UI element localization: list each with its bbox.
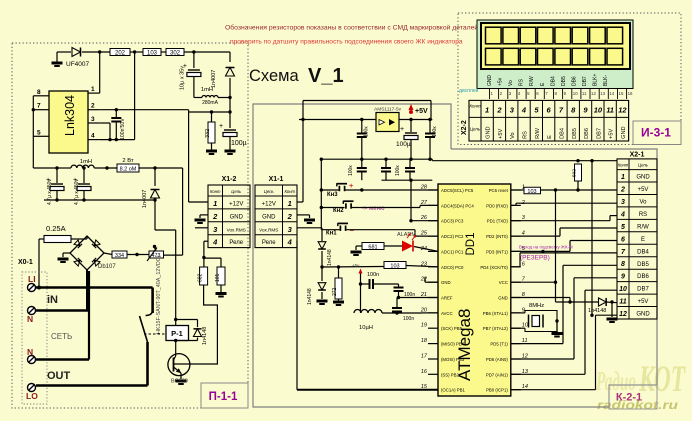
cap 100n gnd 410 [409, 159, 411, 167]
svg-text:4: 4 [91, 133, 95, 140]
bridge bottom to N bus [86, 270, 88, 310]
connector X2-1 table [617, 159, 657, 319]
svg-text:(SS) PB2: (SS) PB2 [441, 372, 460, 377]
connector X0-1 dotted box [22, 272, 47, 404]
pin3 to RS [511, 220, 610, 222]
X1-2 left stubs [189, 201, 208, 203]
pin7 VCC wire [511, 281, 556, 283]
module I-3-1 dashed frame [458, 13, 681, 145]
svg-text:Цепь: Цепь [231, 189, 241, 194]
svg-text:13: 13 [600, 91, 605, 96]
svg-text:DB7: DB7 [596, 128, 602, 139]
svg-text:PD2 (INT0): PD2 (INT0) [486, 234, 508, 239]
svg-text:8MHz: 8MHz [529, 303, 544, 309]
svg-text:1n4148: 1n4148 [202, 327, 208, 345]
wire top rail [57, 51, 71, 53]
svg-text:PD1 (TXD): PD1 (TXD) [487, 219, 509, 224]
svg-text:10µ x 35v: 10µ x 35v [180, 66, 186, 90]
+12V feed down [188, 112, 190, 202]
svg-text:HK15F-SANT-90T_40A_12VDC): HK15F-SANT-90T_40A_12VDC) [156, 255, 162, 334]
divider tap vertical [182, 168, 184, 255]
resistor 682 vert [203, 258, 205, 268]
svg-text:10: 10 [619, 286, 627, 293]
svg-text:10: 10 [573, 91, 578, 96]
svg-text:N: N [27, 347, 33, 357]
input rail [299, 119, 376, 121]
diode 1n4148 5V [599, 298, 607, 306]
resistor 332 [211, 112, 213, 122]
resistor 103 adc [384, 262, 406, 269]
cap 100n gnd 386 [385, 159, 387, 167]
svg-text:272: 272 [332, 287, 338, 296]
svg-text:+12V: +12V [262, 202, 276, 208]
svg-text:1mH: 1mH [201, 87, 213, 93]
svg-text:Обозначения резисторов показан: Обозначения резисторов показаны в соотве… [225, 24, 478, 32]
svg-text:Цепь: Цепь [264, 189, 274, 194]
svg-text:X0-1: X0-1 [18, 259, 33, 266]
svg-text:17: 17 [421, 354, 428, 360]
module K-2-1 label box [609, 385, 657, 409]
svg-text:100µ: 100µ [231, 140, 247, 147]
svg-text:Реле: Реле [229, 240, 243, 246]
bridge plus wire [104, 253, 112, 255]
svg-text:18: 18 [421, 338, 428, 344]
svg-text:16: 16 [421, 369, 428, 375]
svg-text:DB5: DB5 [561, 76, 567, 86]
svg-text:2: 2 [91, 103, 95, 110]
pin22 wire [425, 281, 438, 283]
svg-text:PD6 (AIN0): PD6 (AIN0) [486, 357, 509, 362]
pins 8,7 left bus [32, 96, 34, 110]
gnd top wire to X2-1 [431, 159, 433, 161]
svg-text:LI: LI [28, 274, 36, 284]
capacitor 10u35v [193, 52, 195, 68]
bridge minus to gnd [63, 252, 70, 254]
reset line [511, 189, 524, 191]
svg-text:ADC4(SDA) PC4: ADC4(SDA) PC4 [441, 203, 474, 208]
svg-text:12: 12 [619, 311, 627, 318]
svg-text:Vox.RMS: Vox.RMS [227, 227, 246, 232]
svg-text:12: 12 [618, 105, 627, 114]
capacitor 100n50V [115, 110, 117, 118]
button bus [320, 159, 322, 230]
svg-text:Db107: Db107 [98, 264, 116, 270]
svg-text:N: N [27, 314, 33, 324]
pin N1 [28, 307, 36, 315]
LCD pin stubs and numbers [489, 89, 491, 100]
resistor 272 [338, 267, 340, 278]
svg-text:+5V: +5V [415, 108, 428, 115]
svg-text:1: 1 [288, 199, 292, 208]
button Kn3 [338, 186, 340, 191]
svg-text:V_1: V_1 [308, 65, 344, 87]
gnd rail [321, 158, 432, 160]
svg-text:Vox.RMS: Vox.RMS [259, 227, 278, 232]
svg-text:2: 2 [620, 187, 625, 194]
bottom gnd wire [44, 199, 155, 201]
svg-text:AREF: AREF [441, 296, 453, 301]
svg-text:10µH: 10µH [359, 325, 373, 331]
svg-text:DB4: DB4 [637, 249, 649, 255]
svg-text:Реле: Реле [262, 240, 276, 246]
svg-text:Vo: Vo [639, 200, 647, 206]
thick wire L out [146, 342, 149, 386]
resistor 8.2 ohm 2W [117, 164, 139, 172]
svg-text:DB4: DB4 [559, 128, 565, 139]
inductor 1mH 280mA [194, 97, 202, 99]
bridge Db107 [70, 236, 104, 270]
svg-text:E: E [641, 237, 645, 243]
svg-text:DB7: DB7 [582, 76, 588, 86]
svg-text:КОТ: КОТ [638, 359, 686, 400]
svg-text:ADC3) PC3: ADC3) PC3 [441, 219, 464, 224]
resistor 302 [166, 49, 184, 56]
gnd below diode [611, 302, 613, 317]
svg-text:2: 2 [496, 105, 502, 114]
svg-text:+5v: +5v [352, 263, 360, 268]
svg-text:К-2-1: К-2-1 [616, 392, 642, 404]
svg-text:DB5: DB5 [637, 262, 649, 268]
svg-text:PB7 (XTAL2): PB7 (XTAL2) [483, 326, 509, 331]
resistor 334 [112, 251, 127, 258]
cap 100n out [429, 120, 431, 134]
svg-text:X2-2: X2-2 [461, 120, 468, 135]
svg-text:PB6 (XTAL1): PB6 (XTAL1) [483, 311, 509, 316]
relay row feed [204, 240, 208, 242]
svg-text:1: 1 [91, 86, 95, 93]
module I-3-1 label box [633, 121, 681, 145]
svg-text:P-1: P-1 [171, 329, 183, 338]
Vox RMS chain [297, 227, 322, 229]
svg-text:100µ: 100µ [396, 141, 411, 148]
pin5 to E + reserve [541, 250, 544, 253]
svg-text:(SCK) PB5: (SCK) PB5 [441, 326, 463, 331]
pin2 feedback rail [100, 109, 117, 111]
svg-text:ALARM: ALARM [397, 232, 416, 238]
transistor Q1 BC639 [168, 354, 190, 376]
svg-text:103: 103 [147, 51, 158, 57]
svg-text:GND: GND [441, 280, 451, 285]
svg-text:PD5 (T1): PD5 (T1) [490, 342, 508, 347]
svg-text:0.25A: 0.25A [46, 224, 66, 233]
pin4 wire [100, 139, 135, 141]
cap 100n c [392, 307, 402, 309]
diode 1n4148 b [318, 283, 326, 290]
DD1 pin stubs [428, 189, 438, 191]
svg-text:1n4007: 1n4007 [142, 190, 148, 208]
resistor 101 vert [217, 267, 225, 285]
svg-text:8.2 оМ: 8.2 оМ [120, 167, 137, 173]
svg-text:GND: GND [487, 75, 493, 87]
svg-text:6: 6 [621, 236, 625, 243]
svg-text:GND: GND [262, 214, 276, 220]
svg-text:10: 10 [594, 105, 603, 114]
svg-text:PB0 (ICP1): PB0 (ICP1) [486, 388, 508, 393]
connector X1-1 table [255, 185, 297, 248]
svg-text:15: 15 [619, 91, 624, 96]
module P-1-1 label box [201, 383, 248, 408]
svg-text:Lnk304: Lnk304 [63, 95, 77, 136]
pin6 to DB4 [511, 266, 520, 268]
bottom rail from pin5 [33, 167, 57, 169]
pin13 to DB7 [511, 373, 585, 375]
diode 1n4148 a [318, 242, 326, 249]
svg-text:100n: 100n [367, 272, 379, 278]
svg-text:R/W: R/W [535, 127, 541, 139]
svg-text:RS: RS [523, 131, 529, 139]
svg-text:PD4 (XCK/T0): PD4 (XCK/T0) [480, 265, 508, 270]
pin LO [28, 384, 36, 392]
svg-text:проверить по датшиту правильно: проверить по датшиту правильность подсое… [230, 39, 463, 46]
svg-text:1: 1 [213, 199, 217, 208]
X1-1 GND stub [297, 214, 310, 216]
svg-text:Конт: Конт [469, 103, 480, 108]
svg-text:681: 681 [368, 245, 377, 251]
resistor 202 [110, 49, 130, 56]
svg-text:DB6: DB6 [571, 76, 577, 86]
LCD module background [477, 20, 633, 89]
svg-text:DB7: DB7 [637, 287, 649, 293]
+5v mark small [359, 269, 363, 274]
svg-text:DB6: DB6 [637, 274, 649, 280]
svg-text:Конт: Конт [284, 189, 295, 194]
cap 100n in [361, 120, 363, 134]
svg-text:12: 12 [591, 91, 596, 96]
svg-text:14: 14 [609, 91, 614, 96]
svg-text:280mA: 280mA [202, 100, 219, 106]
lower wire [382, 179, 433, 181]
svg-text:ADC2) PC2: ADC2) PC2 [441, 234, 464, 239]
svg-text:9: 9 [621, 274, 625, 281]
svg-text:СЕТЬ: СЕТЬ [51, 332, 72, 341]
svg-text:+: + [349, 181, 354, 190]
svg-text:1: 1 [485, 105, 489, 114]
svg-text:X2-1: X2-1 [630, 152, 645, 159]
svg-text:11: 11 [582, 91, 587, 96]
svg-text:4: 4 [620, 211, 625, 218]
svg-text:302: 302 [170, 51, 181, 57]
svg-text:П-1-1: П-1-1 [209, 391, 238, 403]
svg-text:GND: GND [230, 214, 244, 220]
pin15 long wire [297, 389, 438, 391]
svg-text:11: 11 [619, 299, 626, 306]
svg-text:1n4148: 1n4148 [588, 308, 606, 314]
pin N2 [28, 356, 36, 364]
+12V riser [302, 101, 304, 203]
svg-text:502: 502 [572, 169, 578, 177]
svg-text:DB5: DB5 [572, 128, 578, 139]
ground at UF4007 [56, 52, 58, 62]
diode 1n4148 relay [176, 319, 198, 321]
cap 100n gnd 361.8 [361, 159, 363, 167]
AVCC feed from lower wire [410, 180, 412, 221]
relay switch blade [146, 311, 153, 316]
svg-text:1n4148: 1n4148 [307, 288, 313, 305]
relay coil top wire [175, 320, 177, 326]
svg-text:PD0 (RXD): PD0 (RXD) [486, 203, 508, 208]
resistor 681 [362, 243, 384, 250]
svg-text:UF4007: UF4007 [66, 61, 90, 68]
svg-text:PC6 reset: PC6 reset [489, 188, 509, 193]
svg-text:101: 101 [215, 273, 221, 282]
svg-text:Схема: Схема [249, 67, 300, 85]
682 to base wire [200, 285, 217, 364]
svg-text:+5V: +5V [609, 129, 615, 139]
svg-text:−: − [350, 226, 355, 235]
svg-text:Выход на подсветку ЖК-М: Выход на подсветку ЖК-М [519, 244, 573, 249]
svg-text:(РЕЗЕРВ): (РЕЗЕРВ) [520, 255, 550, 262]
svg-text:682: 682 [197, 273, 203, 282]
node to 103 [320, 265, 323, 268]
svg-text:3: 3 [91, 116, 95, 123]
svg-text:334: 334 [115, 253, 124, 259]
svg-text:BLK-: BLK- [603, 75, 609, 86]
svg-text:PD3 (INT1): PD3 (INT1) [486, 249, 508, 254]
wire to out node [228, 110, 231, 113]
X1-1 +12V stub [297, 201, 303, 203]
capacitor 100u out [229, 112, 231, 128]
svg-text:1: 1 [621, 174, 625, 181]
pin4 to RW [511, 235, 560, 237]
thick wire L in [36, 286, 153, 289]
svg-text:100к: 100к [348, 165, 354, 176]
button Kn1 [339, 226, 341, 231]
capacitor 4.7u450v #2 [83, 168, 85, 183]
pin2 to Vo [511, 204, 516, 206]
gnd bus vertical [591, 161, 593, 316]
LCD panel [481, 23, 630, 69]
relay P-1 [166, 326, 189, 341]
svg-text:100к: 100к [395, 165, 401, 176]
dashed link switch to relay [144, 333, 166, 335]
svg-text:Vo: Vo [510, 132, 516, 139]
svg-text:Vo: Vo [508, 80, 514, 86]
pin8 gnd wire [511, 297, 570, 299]
svg-text:BC639: BC639 [171, 379, 188, 385]
svg-text:8: 8 [37, 89, 41, 96]
svg-text:3: 3 [621, 199, 625, 206]
svg-text:1n4007: 1n4007 [211, 70, 217, 88]
svg-text:E: E [547, 135, 553, 139]
svg-text:7: 7 [37, 103, 41, 110]
module K-2-1 solid frame [253, 104, 657, 407]
resistor 103 reset [524, 187, 541, 194]
svg-text:LO: LO [26, 391, 38, 401]
svg-text:ADC5(SCL) PC5: ADC5(SCL) PC5 [441, 188, 474, 193]
svg-text:100к: 100к [432, 126, 438, 137]
svg-text:Кн1: Кн1 [326, 231, 337, 237]
svg-text:8: 8 [621, 261, 625, 268]
svg-text:+5V: +5V [498, 129, 504, 139]
svg-text:4.7µ x 450v: 4.7µ x 450v [47, 179, 53, 205]
thick wire N bus [36, 309, 89, 312]
svg-text:19: 19 [421, 323, 427, 329]
svg-text:(MISO) PB4: (MISO) PB4 [441, 342, 465, 347]
svg-text:4: 4 [212, 238, 218, 247]
diode 1n4007 snubber [154, 168, 156, 186]
svg-text:DD1: DD1 [465, 232, 477, 255]
inductor 10uH [354, 310, 382, 314]
Lnk304 pins [33, 95, 49, 97]
svg-text:+: + [400, 126, 404, 133]
svg-text:Кн3: Кн3 [327, 192, 338, 198]
pin11 to DB5 [511, 343, 563, 345]
svg-text:GND: GND [486, 126, 492, 138]
resistor 502 [575, 164, 582, 181]
svg-text:(MOSI) PB3: (MOSI) PB3 [441, 357, 465, 362]
svg-text:100n'50V: 100n'50V [120, 118, 126, 140]
svg-text:iN: iN [47, 294, 58, 306]
svg-text:+5V: +5V [638, 187, 649, 193]
svg-text:ADC0) PC0: ADC0) PC0 [441, 265, 464, 270]
svg-text:И-3-1: И-3-1 [641, 126, 671, 140]
svg-text:5: 5 [621, 224, 625, 231]
svg-text:R/W: R/W [637, 224, 649, 230]
base wire [174, 363, 201, 365]
LCD character cells [486, 27, 502, 44]
svg-text:1mH: 1mH [80, 159, 92, 165]
svg-text:X1-2: X1-2 [222, 176, 237, 183]
module P-1-1 dotted frame [12, 43, 248, 408]
svg-text:4.7µ x 450v: 4.7µ x 450v [74, 179, 80, 205]
svg-text:Кн2: Кн2 [333, 208, 344, 214]
svg-text:4: 4 [521, 105, 527, 114]
cap 100n b [398, 284, 400, 287]
+5V bus vertical [555, 190, 557, 302]
svg-text:VCC: VCC [499, 280, 508, 285]
svg-text:дисплей: дисплей [459, 87, 479, 94]
svg-text:16: 16 [628, 91, 633, 96]
pin3 stub [100, 122, 110, 124]
svg-text:2: 2 [287, 212, 293, 221]
svg-text:+5V: +5V [638, 299, 649, 305]
svg-text:R/W: R/W [529, 76, 535, 86]
svg-text:OUT: OUT [47, 370, 71, 382]
svg-text:GND: GND [636, 312, 650, 318]
inductor 1mH bottom [57, 167, 71, 169]
svg-text:ADC1) PC1: ADC1) PC1 [441, 249, 464, 254]
button Kn2 [345, 203, 347, 208]
AMS1117 regulator [376, 113, 399, 132]
capacitor 4.7u450v #1 [56, 168, 58, 183]
svg-text:100к: 100к [364, 126, 370, 137]
+5V label [409, 104, 414, 110]
diode UF4007 [72, 48, 81, 57]
svg-text:103: 103 [390, 264, 399, 270]
svg-text:GND: GND [498, 296, 508, 301]
wire snubber to relay coil [155, 229, 176, 231]
svg-text:DB4: DB4 [550, 76, 556, 86]
cap 100u out [410, 120, 412, 133]
svg-text:11: 11 [606, 105, 614, 114]
svg-text:DB6: DB6 [584, 128, 590, 139]
svg-text:PD7 (AIN1): PD7 (AIN1) [486, 372, 509, 377]
svg-text:5: 5 [37, 129, 41, 136]
svg-text:Конт: Конт [210, 189, 221, 194]
svg-text:GND: GND [636, 175, 650, 181]
svg-text:GND: GND [621, 126, 627, 138]
svg-text:202: 202 [115, 51, 126, 57]
diode 1n4007 top [229, 52, 231, 62]
svg-text:2 Вт: 2 Вт [122, 158, 134, 164]
svg-text:1n4148: 1n4148 [327, 249, 333, 266]
pin14 wire to row12 [511, 389, 596, 391]
connector X2-2 table [469, 100, 629, 141]
pin26 wire [411, 220, 438, 222]
svg-text:+5v: +5v [498, 77, 504, 86]
Lnk304 IC [49, 91, 88, 153]
svg-text:BLK+: BLK+ [593, 74, 599, 86]
